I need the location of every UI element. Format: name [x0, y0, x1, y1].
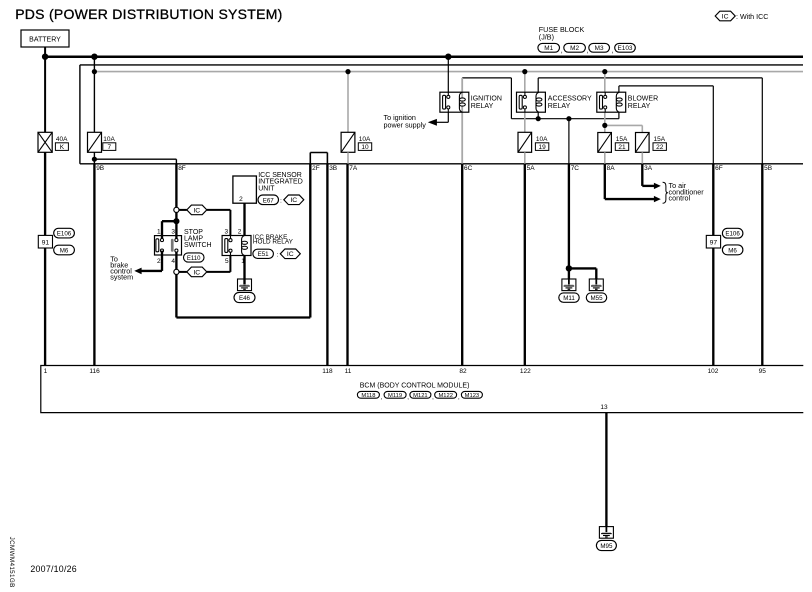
svg-text:M122: M122	[438, 393, 453, 399]
svg-text:82: 82	[459, 368, 467, 375]
svg-text:10A: 10A	[103, 136, 115, 143]
svg-text:M118: M118	[361, 393, 375, 399]
svg-text:4: 4	[171, 258, 175, 265]
svg-text:control: control	[669, 194, 691, 203]
svg-text:RELAY: RELAY	[628, 103, 651, 110]
svg-text:6F: 6F	[715, 165, 723, 172]
svg-text:IGNITION: IGNITION	[471, 96, 502, 103]
svg-text:1: 1	[241, 258, 245, 265]
svg-text:M3: M3	[595, 45, 604, 52]
svg-text:M2: M2	[570, 45, 579, 52]
svg-text:7A: 7A	[349, 165, 358, 172]
svg-text:19: 19	[538, 144, 546, 151]
svg-text:: With ICC: : With ICC	[736, 13, 768, 21]
svg-text:95: 95	[759, 368, 767, 375]
svg-text:BCM (BODY CONTROL MODULE): BCM (BODY CONTROL MODULE)	[360, 382, 470, 389]
svg-text:M55: M55	[590, 295, 603, 302]
svg-text:3A: 3A	[644, 165, 653, 172]
svg-text:M95: M95	[600, 543, 613, 550]
svg-text:E106: E106	[57, 231, 72, 238]
svg-text:ACCESSORY: ACCESSORY	[548, 96, 592, 103]
svg-text:,: ,	[381, 395, 383, 401]
svg-text:9B: 9B	[96, 165, 104, 172]
svg-text:PDS (POWER DISTRIBUTION SYSTEM: PDS (POWER DISTRIBUTION SYSTEM)	[15, 6, 282, 22]
svg-text:3: 3	[224, 228, 228, 235]
svg-text:E106: E106	[725, 231, 740, 238]
svg-text:6C: 6C	[464, 165, 473, 172]
svg-text:10: 10	[361, 144, 369, 151]
svg-text:10A: 10A	[536, 136, 548, 143]
svg-text:power supply: power supply	[384, 120, 427, 129]
svg-text:15A: 15A	[616, 136, 628, 143]
svg-text::: :	[280, 198, 282, 205]
svg-text:15A: 15A	[654, 136, 666, 143]
svg-text:,: ,	[458, 395, 460, 401]
svg-text:M6: M6	[60, 248, 69, 255]
svg-text:5: 5	[225, 258, 229, 265]
svg-text:SWITCH: SWITCH	[184, 242, 212, 249]
svg-text:M1: M1	[544, 45, 553, 52]
svg-text:1: 1	[157, 228, 161, 235]
svg-text:,: ,	[587, 48, 589, 55]
svg-text:,: ,	[432, 395, 434, 401]
svg-text:JCMWM4151GB: JCMWM4151GB	[8, 537, 15, 588]
svg-text:8A: 8A	[607, 165, 616, 172]
svg-text:M6: M6	[728, 247, 737, 254]
svg-text:97: 97	[710, 240, 718, 247]
svg-text:E51: E51	[258, 251, 270, 258]
svg-text:21: 21	[618, 144, 626, 151]
svg-text::: :	[277, 251, 279, 258]
svg-text:E103: E103	[618, 45, 633, 52]
svg-text:5B: 5B	[764, 165, 772, 172]
svg-text:1: 1	[44, 368, 48, 375]
svg-text:RELAY: RELAY	[548, 103, 571, 110]
svg-text:,: ,	[561, 48, 563, 55]
svg-text:E67: E67	[263, 197, 275, 204]
svg-text:102: 102	[708, 368, 719, 375]
svg-text:2: 2	[239, 196, 243, 203]
svg-text:,: ,	[612, 48, 614, 55]
svg-text:7C: 7C	[571, 165, 580, 172]
svg-text:3B: 3B	[329, 165, 337, 172]
svg-text:118: 118	[322, 368, 333, 375]
svg-text:E46: E46	[239, 295, 251, 302]
svg-text:BATTERY: BATTERY	[29, 36, 61, 43]
svg-text:,: ,	[407, 395, 409, 401]
svg-text:122: 122	[520, 368, 531, 375]
svg-text:UNIT: UNIT	[258, 186, 275, 193]
svg-text:11: 11	[345, 368, 352, 375]
svg-text:M11: M11	[563, 295, 575, 302]
svg-text:(J/B): (J/B)	[539, 33, 554, 42]
svg-text:BLOWER: BLOWER	[628, 96, 658, 103]
svg-text:M123: M123	[465, 393, 480, 399]
svg-text:E110: E110	[187, 256, 201, 262]
svg-text:RELAY: RELAY	[471, 103, 494, 110]
svg-text:2: 2	[238, 228, 242, 235]
svg-text:2007/10/26: 2007/10/26	[30, 564, 77, 574]
svg-text:2: 2	[157, 258, 161, 265]
svg-text:HOLD RELAY: HOLD RELAY	[253, 239, 294, 246]
svg-text:5A: 5A	[527, 165, 536, 172]
svg-text:K: K	[60, 144, 65, 151]
svg-text:M121: M121	[413, 393, 428, 399]
svg-text:40A: 40A	[56, 136, 68, 143]
svg-text:system: system	[110, 272, 133, 281]
svg-text:8F: 8F	[178, 165, 186, 172]
svg-text:91: 91	[42, 240, 50, 247]
svg-text:22: 22	[656, 144, 664, 151]
svg-text:10A: 10A	[359, 136, 371, 143]
svg-text:7: 7	[107, 144, 111, 151]
svg-text:13: 13	[600, 404, 608, 411]
svg-text:116: 116	[89, 368, 100, 375]
svg-text:2F: 2F	[312, 165, 320, 172]
svg-text:M119: M119	[388, 393, 402, 399]
svg-text:3: 3	[171, 228, 175, 235]
